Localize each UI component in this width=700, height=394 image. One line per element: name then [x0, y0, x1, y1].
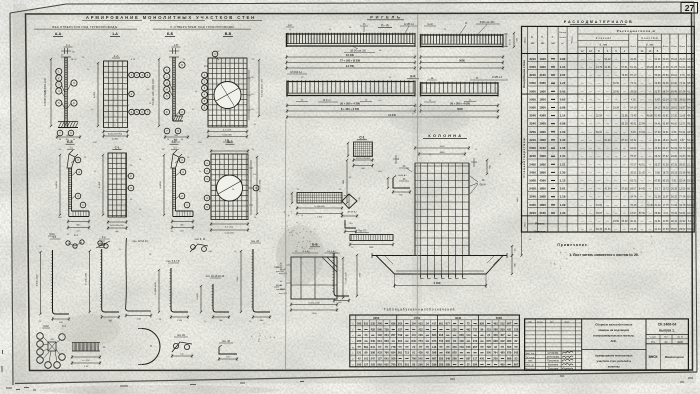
- svg-text:камеры на водоводах: камеры на водоводах: [599, 328, 630, 332]
- svg-text:бетона: бетона: [559, 37, 566, 39]
- svg-text:1-А: 1-А: [114, 54, 119, 58]
- svg-text:206: 206: [378, 321, 383, 325]
- svg-text:23.50: 23.50: [613, 220, 620, 223]
- svg-text:5000: 5000: [529, 106, 536, 110]
- svg-text:—: —: [606, 114, 609, 118]
- column left flags: [393, 155, 412, 181]
- svg-text:100: 100: [50, 339, 53, 341]
- svg-text:АНС.: АНС.: [611, 339, 618, 343]
- svg-text:8 Ø6 шаг 200: 8 Ø6 шаг 200: [480, 21, 495, 24]
- svg-text:1.21: 1.21: [560, 162, 566, 166]
- svg-text:14 700: 14 700: [346, 64, 354, 68]
- svg-text:127: 127: [378, 357, 383, 361]
- svg-text:Подп: Подп: [565, 321, 570, 323]
- svg-text:М-М: М-М: [43, 324, 48, 328]
- svg-text:11.97: 11.97: [663, 196, 669, 199]
- svg-text:2250: 2250: [373, 316, 380, 320]
- svg-text:522: 522: [439, 357, 444, 361]
- bent bar pos 5-8: [155, 260, 189, 322]
- svg-text:2б + 200 + 4 000: 2б + 200 + 4 000: [450, 101, 470, 105]
- column right dimension lines: [486, 159, 527, 257]
- svg-text:870: 870: [507, 351, 512, 355]
- svg-text:δ=50+150×300: δ=50+150×300: [108, 132, 123, 135]
- svg-text:641: 641: [384, 357, 389, 361]
- svg-text:—: —: [581, 203, 584, 207]
- svg-text:—: —: [649, 219, 652, 223]
- svg-text:480: 480: [500, 351, 505, 355]
- svg-text:—: —: [623, 106, 626, 110]
- svg-text:—: —: [649, 227, 652, 231]
- svg-text:—: —: [581, 65, 584, 69]
- svg-text:21.85: 21.85: [605, 66, 612, 69]
- section label A-A: [53, 32, 63, 36]
- fold crease left: [284, 120, 286, 370]
- svg-text:19.87: 19.87: [679, 107, 686, 110]
- svg-text:72.46: 72.46: [647, 204, 654, 207]
- svg-text:—: —: [581, 187, 584, 191]
- svg-text:С-1: С-1: [115, 146, 120, 150]
- svg-text:299: 299: [432, 362, 437, 366]
- svg-text:1800: 1800: [539, 97, 546, 101]
- svg-text:9.76: 9.76: [680, 74, 685, 77]
- svg-text:—: —: [623, 195, 626, 199]
- svg-text:95.27: 95.27: [655, 163, 662, 166]
- margin marks: [2, 350, 693, 390]
- svg-text:—: —: [581, 97, 584, 101]
- beam1 end dim: [504, 32, 519, 48]
- svg-text:12.03: 12.03: [679, 188, 686, 191]
- svg-text:—: —: [581, 219, 584, 223]
- svg-text:1 140: 1 140: [177, 320, 183, 322]
- svg-text:—: —: [623, 154, 626, 158]
- svg-text:54.84: 54.84: [679, 212, 686, 215]
- svg-text:поз. 26: поз. 26: [251, 240, 260, 243]
- svg-text:869: 869: [507, 357, 512, 361]
- svg-text:К-К: К-К: [288, 24, 292, 27]
- svg-text:6+50+300: 6+50+300: [222, 135, 232, 137]
- svg-text:600: 600: [399, 194, 402, 196]
- svg-text:918: 918: [439, 333, 444, 337]
- svg-text:938: 938: [493, 339, 498, 343]
- svg-text:400: 400: [446, 351, 451, 355]
- svg-text:719: 719: [459, 345, 464, 349]
- svg-text:350: 350: [452, 345, 457, 349]
- pos 57 bar: [349, 231, 394, 250]
- svg-text:31.00: 31.00: [655, 204, 662, 207]
- svg-text:—: —: [598, 162, 601, 166]
- svg-text:—: —: [649, 187, 652, 191]
- svg-text:—: —: [598, 146, 601, 150]
- svg-text:963: 963: [507, 339, 512, 343]
- svg-text:0.61: 0.61: [560, 187, 566, 191]
- svg-text:4160: 4160: [539, 146, 546, 150]
- svg-text:83.29: 83.29: [622, 123, 629, 126]
- svg-text:12.07: 12.07: [679, 123, 686, 126]
- svg-text:Всего: Всего: [680, 46, 686, 48]
- svg-text:δ=130+2400: δ=130+2400: [86, 272, 88, 285]
- svg-text:150: 150: [515, 249, 517, 252]
- svg-text:48.66: 48.66: [687, 115, 694, 118]
- svg-text:—: —: [581, 170, 584, 174]
- svg-text:25.00: 25.00: [679, 58, 686, 61]
- svg-text:—: —: [606, 195, 609, 199]
- svg-text:635: 635: [452, 351, 457, 355]
- svg-text:215: 215: [487, 327, 492, 331]
- svg-text:—: —: [589, 162, 592, 166]
- svg-text:С-1: С-1: [359, 136, 364, 140]
- svg-text:101: 101: [364, 357, 369, 361]
- svg-text:207: 207: [391, 333, 396, 337]
- svg-text:6+25+300: 6+25+300: [224, 233, 234, 235]
- beam 2 left: [287, 80, 415, 96]
- svg-text:4160: 4160: [539, 211, 546, 215]
- svg-text:28.28: 28.28: [671, 188, 678, 191]
- svg-text:1900: 1900: [539, 130, 546, 134]
- svg-text:—: —: [641, 195, 644, 199]
- svg-text:27: 27: [685, 3, 695, 13]
- svg-text:—: —: [589, 97, 592, 101]
- svg-text:—: —: [606, 81, 609, 85]
- svg-text:—: —: [649, 73, 652, 77]
- svg-text:10: 10: [167, 139, 169, 141]
- svg-text:1 400: 1 400: [317, 216, 323, 218]
- svg-text:—: —: [598, 170, 601, 174]
- title block document number: [646, 323, 688, 371]
- svg-text:1800: 1800: [539, 187, 546, 191]
- svg-text:—: —: [641, 227, 644, 231]
- flag notes right of bars: [274, 265, 288, 295]
- svg-text:80.81: 80.81: [663, 115, 670, 118]
- svg-text:1.04: 1.04: [560, 65, 566, 69]
- svg-text:22.94: 22.94: [655, 147, 662, 150]
- svg-text:1.09: 1.09: [560, 203, 566, 207]
- svg-text:П р и м е ч а н и е .: П р и м е ч а н и е .: [557, 243, 588, 247]
- svg-text:2250: 2250: [529, 130, 536, 134]
- svg-text:21.08: 21.08: [663, 66, 670, 69]
- svg-text:δ=1300, 2400, 1100: δ=1300, 2400, 1100: [262, 78, 264, 97]
- svg-text:—: —: [606, 211, 609, 215]
- svg-text:19.34: 19.34: [613, 107, 620, 110]
- svg-text:1.22: 1.22: [560, 81, 566, 85]
- svg-text:54.18: 54.18: [630, 107, 637, 110]
- svg-text:202: 202: [398, 321, 403, 325]
- svg-text:957: 957: [473, 345, 478, 349]
- svg-text:5000: 5000: [529, 179, 536, 183]
- svg-text:50: 50: [73, 139, 75, 141]
- svg-text:16.65: 16.65: [687, 58, 694, 61]
- svg-text:19.80: 19.80: [655, 82, 662, 85]
- svg-text:—: —: [581, 114, 584, 118]
- svg-text:71.93: 71.93: [671, 204, 678, 207]
- main title: [82, 15, 262, 21]
- material table title: [564, 20, 632, 24]
- svg-text:47.57: 47.57: [630, 163, 637, 166]
- svg-text:поз. 20: поз. 20: [177, 334, 186, 337]
- svg-text:193: 193: [378, 333, 383, 337]
- svg-text:6+250+1500: 6+250+1500: [346, 273, 348, 284]
- detail pos 40: [218, 340, 238, 361]
- svg-text:52.24: 52.24: [671, 147, 678, 150]
- svg-text:30.39: 30.39: [663, 82, 670, 85]
- svg-text:388: 388: [371, 351, 376, 355]
- svg-text:—: —: [623, 146, 626, 150]
- svg-text:2450: 2450: [529, 187, 536, 191]
- svg-text:687: 687: [432, 357, 437, 361]
- svg-text:δ=300: δ=300: [99, 181, 101, 188]
- svg-text:53.70: 53.70: [679, 147, 686, 150]
- svg-text:—: —: [649, 154, 652, 158]
- svg-text:—: —: [606, 154, 609, 158]
- svg-text:80.35: 80.35: [663, 180, 670, 183]
- svg-text:δ=1100: δ=1100: [160, 181, 162, 189]
- svg-text:12.03: 12.03: [596, 204, 603, 207]
- svg-text:1800: 1800: [539, 203, 546, 207]
- svg-text:—: —: [581, 81, 584, 85]
- svg-text:—: —: [581, 146, 584, 150]
- svg-text:—: —: [649, 138, 652, 142]
- svg-text:1 М: 1 М: [84, 366, 88, 368]
- svg-text:—: —: [598, 138, 601, 142]
- svg-text:284: 284: [473, 362, 478, 366]
- panel 1-A mesh: [94, 54, 150, 141]
- vdim left of column: [343, 159, 348, 204]
- panel B-B wall section: [153, 43, 189, 142]
- svg-text:—: —: [606, 106, 609, 110]
- svg-text:87.43: 87.43: [622, 139, 629, 142]
- svg-text:54.17: 54.17: [655, 107, 662, 110]
- svg-text:3240: 3240: [529, 122, 536, 126]
- svg-text:15.26: 15.26: [630, 228, 637, 231]
- section label C-C row2: [113, 146, 122, 150]
- svg-text:1.33: 1.33: [560, 211, 566, 215]
- letter table: [350, 315, 520, 367]
- svg-text:15.56: 15.56: [679, 171, 686, 174]
- svg-text:837: 837: [466, 357, 471, 361]
- svg-text:δ-1 =150: δ-1 =150: [223, 130, 232, 132]
- svg-text:—: —: [615, 211, 618, 215]
- svg-text:1.34: 1.34: [560, 154, 566, 158]
- svg-text:—: —: [623, 203, 626, 207]
- detail pos 9,11 Z-bar: [190, 238, 213, 253]
- svg-text:—: —: [598, 195, 601, 199]
- beam 2 right: [421, 82, 499, 97]
- svg-text:—: —: [623, 89, 626, 93]
- svg-text:n × 100: n × 100: [83, 359, 91, 362]
- svg-text:—: —: [615, 146, 618, 150]
- svg-text:—: —: [641, 203, 644, 207]
- svg-text:811: 811: [364, 321, 369, 325]
- svg-text:—: —: [623, 57, 626, 61]
- svg-text:4×1.57: 4×1.57: [509, 38, 512, 45]
- svg-text:974: 974: [432, 339, 437, 343]
- svg-text:64.42: 64.42: [639, 188, 646, 191]
- svg-text:37.20: 37.20: [671, 115, 678, 118]
- svg-text:СУСЛОВА: СУСЛОВА: [548, 352, 559, 355]
- svg-text:δ-2 =150: δ-2 =150: [225, 227, 234, 229]
- svg-text:25.13: 25.13: [671, 171, 678, 174]
- svg-text:226: 226: [493, 357, 498, 361]
- kolonna title: [423, 134, 467, 139]
- svg-text:—: —: [606, 179, 609, 183]
- svg-text:—: —: [598, 97, 601, 101]
- svg-text:—: —: [581, 106, 584, 110]
- svg-text:626: 626: [480, 321, 485, 325]
- svg-text:463: 463: [493, 321, 498, 325]
- svg-text:—: —: [581, 179, 584, 183]
- svg-text:5.18: 5.18: [688, 220, 693, 223]
- svg-text:75.09: 75.09: [671, 212, 678, 215]
- svg-text:247: 247: [371, 357, 376, 361]
- svg-text:—: —: [589, 154, 592, 158]
- svg-text:8 + 400 + 3 500: 8 + 400 + 3 500: [341, 107, 360, 111]
- svg-text:δ=300: δ=300: [112, 139, 119, 141]
- svg-text:65.48: 65.48: [687, 74, 694, 77]
- small angle detail: [344, 220, 357, 234]
- svg-text:h - h: h - h: [381, 23, 388, 27]
- svg-text:98.35: 98.35: [687, 123, 694, 126]
- svg-text:69.76: 69.76: [596, 228, 603, 231]
- svg-text:—: —: [615, 187, 618, 191]
- svg-text:К-1: К-1: [53, 236, 57, 239]
- svg-text:мм: мм: [531, 42, 535, 45]
- svg-text:—: —: [606, 219, 609, 223]
- svg-text:1-Б: 1-Б: [174, 43, 178, 47]
- svg-text:—: —: [615, 203, 618, 207]
- panel G-G hooked bar: [160, 148, 194, 233]
- svg-text:—: —: [615, 65, 618, 69]
- svg-text:2450: 2450: [529, 203, 536, 207]
- svg-text:26.86: 26.86: [630, 58, 637, 61]
- svg-text:—: —: [589, 179, 592, 183]
- svg-text:417: 417: [432, 321, 437, 325]
- svg-text:АНТОНОВА: АНТОНОВА: [547, 356, 560, 359]
- svg-text:3240: 3240: [529, 114, 536, 118]
- svg-text:δ ,: δ ,: [552, 36, 555, 39]
- svg-text:—: —: [589, 227, 592, 231]
- svg-text:405: 405: [480, 357, 485, 361]
- svg-text:50: 50: [181, 139, 183, 141]
- svg-text:4240: 4240: [677, 340, 683, 344]
- svg-text:—: —: [615, 122, 618, 126]
- panel V-V mesh with hole: [202, 51, 255, 142]
- svg-text:1-А: 1-А: [112, 32, 118, 36]
- svg-text:—: —: [623, 81, 626, 85]
- svg-text:Марка: Марка: [524, 36, 526, 43]
- svg-text:—: —: [649, 146, 652, 150]
- svg-text:—: —: [589, 195, 592, 199]
- svg-text:54.42: 54.42: [687, 139, 694, 142]
- svg-text:5000: 5000: [459, 58, 465, 62]
- svg-text:407: 407: [500, 333, 505, 337]
- svg-text:δ=400: δ=400: [197, 293, 199, 300]
- svg-text:628: 628: [459, 333, 464, 337]
- svg-text:—: —: [649, 130, 652, 134]
- svg-text:—: —: [615, 138, 618, 142]
- svg-text:40.51: 40.51: [639, 163, 646, 166]
- svg-text:11.78: 11.78: [671, 66, 677, 69]
- svg-text:862: 862: [378, 362, 383, 366]
- svg-text:13.79: 13.79: [596, 66, 603, 69]
- svg-text:93.83: 93.83: [687, 228, 694, 231]
- svg-text:Армирование монолитных: Армирование монолитных: [595, 354, 633, 358]
- svg-text:713: 713: [405, 351, 410, 355]
- svg-text:6+250+1500: 6+250+1500: [308, 302, 320, 304]
- svg-text:17.75: 17.75: [663, 204, 670, 207]
- svg-text:22.54: 22.54: [596, 115, 603, 118]
- svg-text:Сборные железобетонные: Сборные железобетонные: [595, 323, 632, 327]
- svg-text:—: —: [581, 57, 584, 61]
- svg-text:1900: 1900: [539, 89, 546, 93]
- svg-text:1900: 1900: [539, 122, 546, 126]
- svg-text:В-В: В-В: [225, 32, 232, 36]
- svg-text:4 Ø 6 А-I: 4 Ø 6 А-I: [327, 250, 336, 253]
- svg-text:колонны: колонны: [608, 365, 621, 369]
- svg-text:204: 204: [384, 333, 389, 337]
- svg-text:68.24: 68.24: [663, 90, 670, 93]
- svg-text:Стадия: Стадия: [650, 337, 656, 339]
- svg-text:—: —: [581, 130, 584, 134]
- svg-text:27.96: 27.96: [671, 98, 678, 101]
- svg-text:δ=300Н, НАИМ 2410-1100: δ=300Н, НАИМ 2410-1100: [44, 77, 47, 105]
- svg-text:212: 212: [500, 321, 505, 325]
- mesh strip detail: [291, 192, 349, 219]
- svg-text:—: —: [589, 89, 592, 93]
- column body: [415, 163, 469, 277]
- svg-text:3240: 3240: [529, 195, 536, 199]
- svg-text:поз. 5,6,7,8: поз. 5,6,7,8: [167, 260, 181, 263]
- svg-text:681: 681: [439, 321, 444, 325]
- svg-text:Лис №: Лис №: [677, 336, 683, 339]
- svg-text:Н ,: Н ,: [541, 36, 544, 39]
- svg-text:—: —: [598, 179, 601, 183]
- svg-text:52.85: 52.85: [687, 180, 694, 183]
- svg-text:—: —: [589, 106, 592, 110]
- svg-text:11.36: 11.36: [663, 220, 669, 223]
- svg-text:В ,: В ,: [531, 36, 534, 39]
- bend radius detail arc: [138, 329, 160, 365]
- svg-text:87.26: 87.26: [671, 163, 678, 166]
- svg-text:10.02: 10.02: [630, 147, 637, 150]
- svg-text:Нач. отд: Нач. отд: [526, 353, 535, 355]
- svg-text:—: —: [589, 114, 592, 118]
- svg-text:834: 834: [432, 333, 437, 337]
- column right flags: [470, 158, 487, 194]
- beam 1 left: [287, 33, 416, 47]
- svg-text:Лист: Лист: [664, 337, 668, 339]
- bent bar pos 10,15,16,19: [197, 275, 230, 322]
- svg-text:—: —: [581, 227, 584, 231]
- svg-text:51.61: 51.61: [679, 131, 686, 134]
- svg-text:2450: 2450: [529, 170, 536, 174]
- svg-text:В-З: В-З: [227, 140, 232, 144]
- svg-text:—: —: [598, 73, 601, 77]
- svg-text:543: 543: [514, 351, 519, 355]
- smudge blotches: [40, 106, 470, 394]
- svg-text:1800: 1800: [539, 138, 546, 142]
- svg-text:28.12: 28.12: [671, 220, 678, 223]
- svg-text:—: —: [615, 227, 618, 231]
- svg-text:598: 598: [432, 351, 437, 355]
- svg-text:6.66: 6.66: [672, 131, 677, 134]
- svg-text:1 400: 1 400: [311, 313, 317, 315]
- svg-text:—: —: [606, 97, 609, 101]
- vertical dim right of panel D-D: [256, 156, 262, 215]
- svg-text:3240: 3240: [529, 73, 536, 77]
- tiny annotations: [39, 27, 546, 323]
- svg-text:5000: 5000: [496, 316, 503, 320]
- svg-text:57.61: 57.61: [622, 66, 629, 69]
- svg-text:48.00: 48.00: [671, 123, 678, 126]
